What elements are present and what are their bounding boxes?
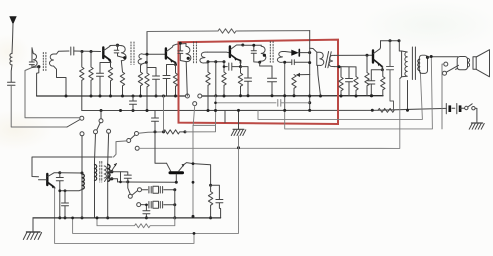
capacitor C6 — [163, 74, 170, 96]
wire — [25, 68, 80, 118]
IF transformer T8 primary — [94, 161, 96, 182]
switch contact bus gap — [198, 94, 202, 98]
capacitor C23 — [143, 205, 150, 218]
T4 core — [270, 42, 273, 64]
wire — [74, 50, 101, 53]
bracket wire — [32, 157, 112, 177]
capacitor C24 — [147, 68, 160, 97]
resistor R17 — [381, 70, 385, 96]
node — [132, 109, 135, 112]
bottom return wires — [73, 148, 239, 234]
wiper arrow — [297, 74, 310, 76]
wire — [475, 108, 477, 122]
node — [258, 61, 261, 64]
node — [146, 53, 149, 56]
ceramic filter X1 — [142, 187, 152, 194]
node — [370, 94, 373, 97]
node Q3 emitter — [239, 65, 242, 68]
node T2 tap — [123, 56, 126, 59]
node — [145, 61, 148, 64]
resistor R18 — [378, 108, 394, 112]
node — [430, 55, 433, 58]
node Q2 emitter — [174, 63, 177, 66]
switch arm — [446, 65, 458, 72]
node — [283, 61, 286, 64]
capacitor C16 — [346, 67, 353, 96]
transistor Q2 — [165, 49, 167, 59]
transistor Q4 — [372, 51, 374, 63]
capacitor C20 — [62, 191, 69, 218]
node — [99, 95, 102, 98]
node — [338, 65, 341, 68]
wire — [442, 64, 444, 129]
wire — [107, 133, 110, 163]
switch arm S1a — [67, 120, 80, 128]
AGC rail riser — [146, 32, 148, 74]
AGC rail — [147, 30, 218, 33]
earphone jack — [457, 57, 467, 70]
collector wire — [60, 172, 82, 174]
capacitor C14 — [292, 60, 310, 65]
resistor R6 — [145, 73, 149, 111]
node — [65, 95, 68, 98]
node — [239, 94, 242, 97]
wire T6 frame — [407, 81, 409, 111]
T3 core — [194, 42, 197, 64]
resonator switch contact lower — [137, 203, 141, 207]
wire T8 bottom — [94, 182, 96, 218]
wire T1 secondary bottom — [57, 69, 67, 96]
node T3 tap — [187, 57, 190, 60]
node — [214, 102, 217, 105]
resistor R2 — [89, 52, 93, 97]
node — [119, 181, 122, 184]
capacitor C19 — [56, 173, 63, 191]
node — [366, 54, 369, 57]
capacitor C22 — [211, 185, 223, 218]
band switch pole — [127, 139, 131, 143]
wire — [10, 65, 13, 82]
diode D1 — [291, 50, 299, 56]
resistor R10 — [206, 62, 210, 111]
band switch contact — [94, 130, 98, 134]
node Q5 collector — [58, 171, 61, 174]
battery B1 — [445, 104, 447, 114]
wire T2 secondary bottom — [141, 62, 147, 72]
resistor R4 — [120, 72, 124, 96]
wire to Q6 collector — [118, 181, 176, 183]
node — [145, 216, 148, 219]
resistor R19 — [208, 185, 212, 218]
transistor Q6 — [167, 163, 171, 171]
node T9 tap — [110, 177, 113, 180]
transistor Q5 — [46, 174, 48, 185]
node — [214, 60, 217, 63]
resistor R11 — [222, 62, 226, 96]
jack switch contact — [444, 62, 448, 66]
node — [126, 180, 129, 183]
node — [252, 44, 255, 47]
node — [162, 95, 165, 98]
wire — [300, 52, 310, 54]
node — [389, 39, 392, 42]
node Q4 emitter — [381, 68, 384, 71]
node — [370, 94, 373, 97]
node — [96, 216, 99, 219]
wire — [128, 182, 131, 194]
T9 arrow — [105, 164, 117, 182]
capacitor C11 — [241, 67, 252, 96]
capacitor C3 — [71, 47, 74, 55]
capacitor C8 — [152, 111, 159, 132]
node — [162, 130, 165, 133]
node — [145, 204, 148, 207]
node — [214, 109, 217, 112]
resonator switch pole — [128, 194, 132, 198]
capacitor C4 — [114, 45, 123, 57]
resistor R8 — [173, 65, 177, 97]
node — [106, 216, 109, 219]
resistor R15 — [354, 67, 358, 96]
T6 primary — [402, 51, 408, 77]
node — [81, 172, 84, 175]
wire Q1 emitter — [110, 63, 112, 68]
switch contact — [80, 116, 84, 120]
IF transformer T2 primary — [121, 46, 126, 72]
band switch contact — [99, 119, 103, 123]
node — [184, 130, 187, 133]
IF transformer T4 primary — [260, 45, 266, 62]
volume control R13 — [292, 75, 296, 96]
ground symbol right — [472, 122, 483, 124]
wire battery to switch — [460, 107, 464, 109]
wire — [100, 63, 111, 71]
T2 core — [131, 42, 134, 65]
capacitor C21 — [121, 172, 132, 182]
resistor R1 — [80, 52, 84, 111]
node — [371, 109, 374, 112]
speaker — [473, 57, 476, 70]
capacitor C18 — [387, 41, 394, 110]
wire bottom return — [55, 188, 194, 243]
IFT3 tuning capacitor C9 — [178, 43, 186, 61]
T5 secondary — [329, 55, 335, 66]
AGC feed vertical — [309, 31, 311, 111]
T6 secondary — [419, 55, 427, 73]
wire — [163, 96, 165, 132]
node — [308, 109, 311, 112]
wire T7 bottom — [81, 190, 83, 218]
node T9 tap — [110, 170, 113, 173]
wire — [174, 190, 176, 218]
node — [223, 95, 226, 98]
node — [209, 216, 212, 219]
switch arm — [130, 135, 135, 139]
wire — [100, 111, 102, 119]
wire — [215, 62, 217, 96]
node Q1 collector — [116, 44, 119, 47]
resistor R9 — [164, 130, 186, 134]
resistor R7 AGC — [218, 29, 310, 33]
node — [173, 216, 176, 219]
node — [71, 217, 74, 220]
node — [109, 95, 112, 98]
AF takeoff wire — [193, 96, 216, 216]
band switch contact lower — [135, 146, 139, 150]
node — [193, 232, 196, 235]
resistor R5 — [138, 72, 142, 96]
node — [426, 56, 429, 59]
node — [154, 130, 157, 133]
wire — [81, 136, 83, 173]
wire T9 bottom — [107, 181, 109, 218]
wire — [284, 62, 286, 110]
wire — [139, 132, 164, 133]
node — [398, 39, 401, 42]
variable osc coil T9 — [107, 164, 109, 182]
node — [283, 94, 286, 97]
node — [192, 162, 195, 165]
capacitor C15 — [278, 100, 310, 107]
wire — [185, 125, 216, 131]
node — [271, 94, 274, 97]
oscillator coil T7 — [81, 173, 83, 190]
node — [308, 101, 311, 104]
node — [283, 109, 286, 112]
node — [223, 65, 226, 68]
output transformer T6 primary lead — [399, 41, 401, 79]
node — [90, 95, 93, 98]
wire L1 return — [258, 73, 422, 119]
wire — [60, 190, 82, 218]
wire — [11, 85, 67, 127]
wire T3 secondary to Q3 base — [208, 51, 230, 54]
wire T1 secondary top — [57, 51, 70, 54]
wire — [243, 44, 261, 46]
node — [207, 109, 210, 112]
node — [308, 61, 311, 64]
node T1 tap — [37, 65, 40, 68]
node — [175, 181, 178, 184]
Q6 collector drop — [175, 174, 177, 182]
node — [207, 60, 210, 63]
ground symbol center — [238, 111, 240, 130]
node — [209, 184, 212, 187]
node — [179, 42, 182, 45]
node — [237, 146, 240, 149]
node — [319, 95, 322, 98]
node — [146, 109, 149, 112]
wire — [167, 65, 176, 75]
wire T4 secondary top — [285, 51, 291, 54]
capacitor C10 — [224, 62, 241, 70]
band switch contact — [135, 132, 139, 136]
node — [81, 50, 84, 53]
node — [355, 95, 358, 98]
T4 secondary — [277, 52, 285, 63]
node — [340, 95, 343, 98]
node — [247, 94, 250, 97]
wire — [110, 44, 121, 46]
node — [308, 95, 311, 98]
node — [132, 95, 135, 98]
bottom bus C — [33, 217, 221, 219]
node — [155, 95, 158, 98]
wire chassis return — [238, 136, 240, 148]
wire T6 secondary top to speaker — [428, 56, 459, 59]
node — [139, 95, 142, 98]
switch contact bus gap — [185, 94, 189, 98]
main bus A — [37, 95, 186, 97]
node T4 tap — [263, 54, 266, 57]
node — [90, 50, 93, 53]
band switch contact — [80, 132, 84, 136]
node — [58, 216, 61, 219]
capacitor C1 — [8, 82, 16, 85]
wire T5 secondary top to Q4 — [335, 54, 373, 56]
wire T6 secondary bottom — [419, 72, 421, 73]
wire T2 secondary to Q2 base — [142, 53, 165, 56]
T8 secondary — [104, 166, 106, 178]
resistor R12 — [238, 67, 242, 96]
node — [214, 94, 217, 97]
node — [58, 189, 61, 192]
audio coupling from bus B — [155, 132, 167, 163]
antenna coil L1 — [10, 54, 12, 65]
driver transformer T5 primary — [317, 52, 324, 65]
switch arm — [132, 191, 138, 196]
node — [174, 95, 177, 98]
node — [173, 203, 176, 206]
band switch contact — [107, 129, 111, 133]
long feed wire L3 — [139, 79, 400, 149]
node — [81, 216, 84, 219]
capacitor C7 — [130, 96, 137, 111]
red highlight box — [179, 40, 339, 124]
wire — [95, 134, 96, 161]
switch pole contact — [193, 102, 197, 106]
node Q3 collector — [241, 44, 244, 47]
node — [64, 189, 67, 192]
T6 core — [412, 47, 415, 80]
wire T5 primary bottom — [318, 65, 321, 96]
resistor R14 — [339, 67, 343, 96]
wire — [310, 48, 317, 52]
resistor R3 — [108, 67, 112, 96]
transformer T1 primary — [32, 48, 37, 66]
wire T1 primary bottom to bus — [37, 67, 39, 96]
wire return to speaker — [285, 57, 433, 129]
T3 secondary — [200, 52, 208, 63]
node — [192, 215, 195, 218]
power switch contact — [472, 107, 475, 110]
resonator switch contact — [138, 188, 142, 192]
tap wires — [108, 172, 121, 182]
node — [223, 60, 226, 63]
antenna — [9, 16, 16, 25]
transformer T1 secondary — [49, 54, 56, 69]
IFT4 tuning capacitor C12 — [251, 45, 260, 62]
node — [100, 109, 103, 112]
ceramic filter X2 — [141, 202, 152, 209]
capacitor C5 — [97, 70, 104, 96]
T5 core — [325, 52, 331, 68]
node — [308, 51, 311, 54]
node — [406, 109, 409, 112]
capacitor C13 — [268, 78, 277, 96]
output top rail — [381, 40, 400, 42]
node — [293, 94, 296, 97]
node — [64, 216, 67, 219]
wire T4 primary bottom — [260, 62, 272, 77]
node — [237, 109, 240, 112]
wire T5 secondary bottom — [335, 66, 356, 68]
wire — [193, 106, 195, 126]
wire — [224, 111, 226, 123]
power switch contact — [465, 106, 468, 109]
ground symbol bottom left — [32, 218, 34, 232]
transistor Q1 — [102, 48, 104, 59]
node — [119, 109, 122, 112]
antenna lead wire — [12, 24, 13, 54]
pole wire — [114, 141, 127, 157]
T2 secondary — [138, 54, 142, 64]
resistor R16 — [365, 55, 369, 95]
capacitor C17 — [368, 70, 383, 96]
jack switch contact — [443, 71, 447, 75]
transistor Q3 — [229, 47, 231, 58]
wire T3 secondary bottom — [208, 62, 225, 63]
main bus B — [82, 108, 447, 110]
switch arm — [468, 104, 472, 107]
T8 core — [100, 162, 102, 183]
IF transformer T3 primary — [186, 44, 191, 97]
feedback resistor R20 — [97, 218, 175, 228]
node — [192, 181, 195, 184]
node — [173, 188, 176, 191]
node — [121, 95, 124, 98]
wire T4 secondary bottom — [285, 61, 292, 63]
T1 core — [43, 53, 46, 71]
switch arm — [97, 123, 101, 131]
tuning capacitor C2 — [29, 48, 39, 68]
wire — [216, 102, 277, 104]
